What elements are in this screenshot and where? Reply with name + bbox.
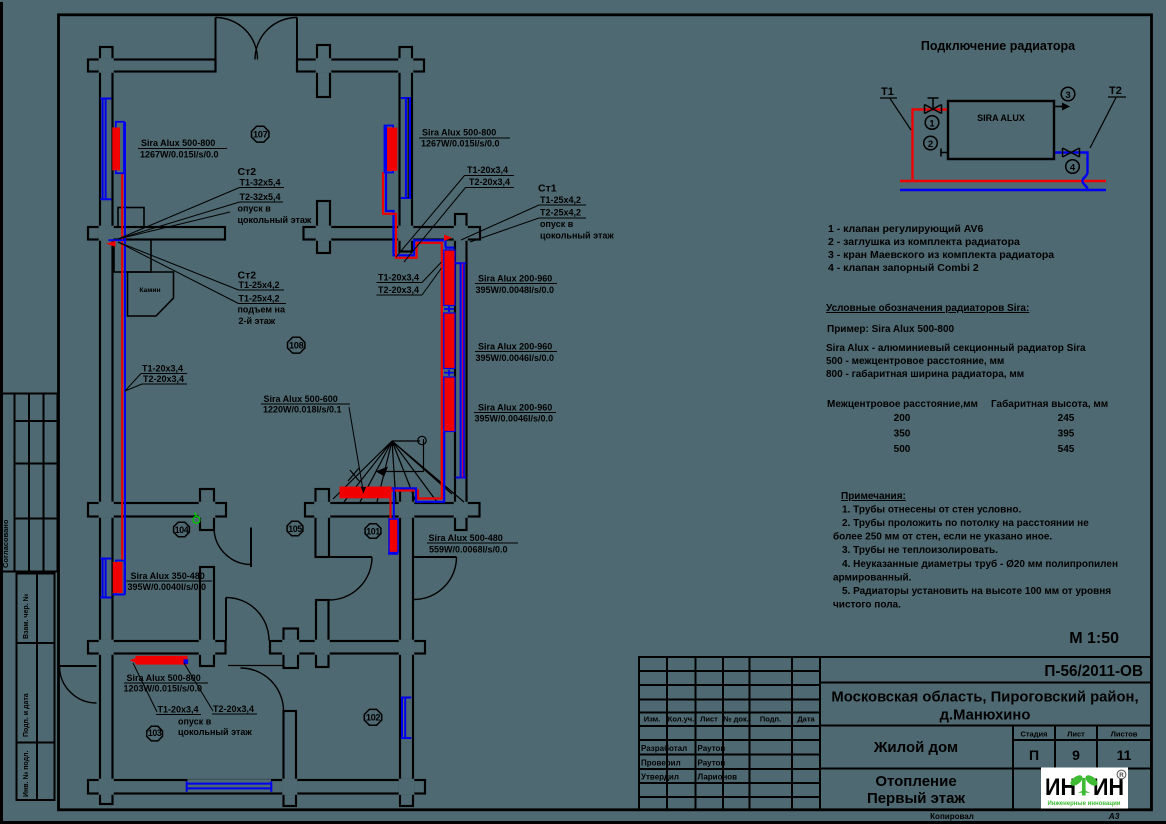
- svg-text:1: 1: [929, 118, 935, 129]
- svg-text:Разработал: Разработал: [641, 744, 687, 753]
- leader arrowhead to stairs radiator: [361, 487, 367, 493]
- fireplace: [114, 208, 174, 317]
- svg-text:1220W/0.018l/s/0.1: 1220W/0.018l/s/0.1: [263, 405, 342, 415]
- svg-text:Раутов: Раутов: [698, 759, 726, 768]
- red arrow at radiator 103 left: [130, 658, 136, 663]
- wall D: [284, 711, 297, 806]
- wall E right interior: [400, 489, 413, 806]
- svg-text:Sira Alux 500-800: Sira Alux 500-800: [422, 128, 496, 138]
- svg-text:107: 107: [253, 130, 268, 140]
- svg-text:Т2-20х3,4: Т2-20х3,4: [378, 285, 419, 295]
- svg-text:Условные обозначения радиаторо: Условные обозначения радиаторов Sira:: [826, 302, 1029, 314]
- svg-text:Стадия: Стадия: [1020, 730, 1047, 739]
- red supply pipe mid: [383, 172, 442, 499]
- return pipe in right wall window: [462, 263, 464, 477]
- svg-text:Т1: Т1: [881, 86, 894, 98]
- svg-text:Sira Alux 350-480: Sira Alux 350-480: [131, 571, 205, 581]
- svg-text:Sira Alux - алюминиевый секци: Sira Alux - алюминиевый секционный радиа…: [826, 343, 1086, 354]
- radiator body SIRA ALUX: [948, 101, 1054, 159]
- wall middle-left: [88, 227, 225, 240]
- radiator 102 Sira Alux 500-480: [389, 519, 398, 553]
- G_ROOMTAGS: [147, 126, 382, 741]
- door D3 leaf: [225, 598, 227, 641]
- entrance door right leaf: [296, 18, 298, 60]
- svg-text:SIRA ALUX: SIRA ALUX: [977, 113, 1025, 123]
- svg-text:Т2-25х4,2: Т2-25х4,2: [540, 208, 581, 218]
- G_PLANLABELS: [124, 128, 615, 738]
- svg-text:559W/0.0068l/s/0.0: 559W/0.0068l/s/0.0: [429, 545, 508, 555]
- entrance door left leaf: [215, 18, 217, 60]
- wall lower-left: [88, 503, 226, 517]
- svg-text:М 1:50: М 1:50: [1069, 630, 1119, 647]
- radiator 107-right Sira Alux 500-800: [385, 126, 394, 173]
- approvals table: [2, 394, 58, 572]
- svg-text:1203W/0.015l/s/0.0: 1203W/0.015l/s/0.0: [124, 684, 203, 694]
- svg-text:Т1-20х3,4: Т1-20х3,4: [467, 165, 508, 175]
- svg-text:245: 245: [1058, 413, 1075, 424]
- svg-text:1. Трубы отнесены от стен усло: 1. Трубы отнесены от стен условно.: [842, 504, 1021, 516]
- logo INZHIN: [1041, 768, 1128, 809]
- svg-text:Т2: Т2: [1109, 85, 1122, 97]
- bottom stub right: [400, 780, 425, 794]
- blue return pipe mid: [386, 126, 454, 256]
- svg-text:Т1-25х4,2: Т1-25х4,2: [540, 195, 581, 205]
- svg-text:Изм.: Изм.: [644, 715, 661, 724]
- window top x405: [401, 98, 411, 198]
- svg-text:4 - клапан запорный Combi 2: 4 - клапан запорный Combi 2: [828, 262, 979, 274]
- svg-text:105: 105: [288, 524, 302, 534]
- window left lower: [100, 559, 111, 598]
- riser drop arrow left (red): [106, 241, 116, 247]
- plug 2: [941, 149, 948, 157]
- stair boundary top: [392, 440, 420, 442]
- svg-text:Раутов: Раутов: [698, 744, 726, 753]
- svg-text:Лист: Лист: [700, 715, 718, 724]
- radiator right-2 Sira Alux 200-960: [444, 313, 455, 369]
- svg-text:Т1-25х4,2: Т1-25х4,2: [239, 280, 280, 290]
- blue cap radiator 102: [388, 553, 398, 555]
- svg-text:2: 2: [928, 139, 933, 150]
- air vent 3: [1054, 106, 1062, 108]
- svg-text:2 - заглушка из комплекта ради: 2 - заглушка из комплекта радиатора: [828, 236, 1020, 248]
- svg-text:Подп. и дата: Подп. и дата: [23, 693, 30, 737]
- svg-text:Sira Alux 500-800: Sira Alux 500-800: [127, 673, 201, 683]
- svg-text:Утвердил: Утвердил: [641, 773, 679, 782]
- G_TITLEBLOCK: [639, 657, 1151, 810]
- svg-text:Т1-32х5,4: Т1-32х5,4: [240, 178, 281, 188]
- svg-text:9: 9: [1072, 747, 1080, 763]
- svg-text:цокольный этаж: цокольный этаж: [540, 231, 614, 241]
- G_UNDERLINES: [124, 138, 586, 715]
- svg-text:Т2-20х3,4: Т2-20х3,4: [143, 374, 184, 384]
- wall top-right segment: [297, 60, 424, 72]
- svg-text:395W/0.0040l/s/0.0: 395W/0.0040l/s/0.0: [128, 582, 207, 592]
- G_LEGEND: [828, 223, 1054, 274]
- G_DOORS: [60, 18, 457, 712]
- sheet left edge: [0, 2, 3, 824]
- door D4 arc: [241, 668, 284, 711]
- svg-text:1267W/0.015l/s/0.0: 1267W/0.015l/s/0.0: [140, 150, 219, 160]
- svg-text:1267W/0.015l/s/0.0: 1267W/0.015l/s/0.0: [421, 139, 500, 149]
- svg-text:108: 108: [289, 341, 304, 351]
- svg-text:Кол.уч.: Кол.уч.: [668, 715, 694, 724]
- door D5 leaf: [414, 556, 457, 558]
- detail red main: [900, 180, 1106, 182]
- wall B x207: [200, 567, 214, 666]
- svg-text:Проверил: Проверил: [641, 759, 681, 768]
- svg-text:опуск в: опуск в: [238, 204, 272, 214]
- detail blue main: [900, 189, 1106, 191]
- green symbol: [193, 513, 200, 524]
- G_WALLS: [88, 45, 480, 806]
- svg-text:500: 500: [894, 444, 911, 455]
- tag 1: [925, 116, 939, 130]
- svg-text:д.Манюхино: д.Манюхино: [940, 708, 1031, 724]
- wall vertical x400 top: [400, 47, 413, 252]
- svg-text:800 - габаритная ширина радиат: 800 - габаритная ширина радиатора, мм: [826, 368, 1024, 380]
- stair arrowhead: [377, 468, 387, 476]
- svg-text:104: 104: [175, 525, 189, 535]
- threshold line room 102: [228, 665, 284, 667]
- svg-text:11: 11: [1117, 747, 1132, 763]
- svg-text:Габаритная высота, мм: Габаритная высота, мм: [991, 398, 1108, 410]
- svg-text:350: 350: [894, 429, 911, 440]
- svg-text:подъем на: подъем на: [238, 305, 286, 315]
- radiator 103 horizontal Sira Alux 500-800: [136, 656, 188, 665]
- stair treads fan: [333, 441, 464, 502]
- sheet bottom edge: [0, 821, 1166, 824]
- stair arrow tail cross: [348, 468, 360, 482]
- blue mark at radiator 103 right: [184, 659, 189, 664]
- svg-text:Sira Alux 500-600: Sira Alux 500-600: [264, 394, 338, 404]
- valve 4 on return: [1063, 148, 1080, 157]
- door 103 exterior arc: [60, 666, 97, 703]
- radiator 104 Sira Alux 350-480: [116, 561, 125, 595]
- svg-text:Межцентровое расстояние,мм: Межцентровое расстояние,мм: [827, 399, 978, 410]
- svg-text:Лист: Лист: [1067, 730, 1085, 739]
- svg-text:Sira Alux 500-480: Sira Alux 500-480: [429, 533, 503, 543]
- svg-text:3. Трубы не теплоизолировать.: 3. Трубы не теплоизолировать.: [842, 544, 998, 556]
- svg-text:Sira Alux 200-960: Sira Alux 200-960: [478, 274, 552, 284]
- tag 2: [924, 136, 938, 150]
- lower stamp boxes: [17, 574, 55, 801]
- svg-text:395W/0.0048l/s/0.0: 395W/0.0048l/s/0.0: [476, 285, 555, 295]
- door 103 exterior leaf: [60, 665, 97, 667]
- svg-text:3: 3: [1065, 90, 1070, 101]
- svg-text:Т1-20х3,4: Т1-20х3,4: [142, 364, 183, 374]
- door D5 arc: [414, 557, 457, 600]
- blue return pipe left riser: [124, 122, 126, 594]
- wall bottom: [88, 780, 413, 794]
- svg-text:545: 545: [1058, 444, 1075, 455]
- wall A interior horizontal left: [88, 641, 226, 654]
- door D2 arc: [329, 557, 372, 600]
- svg-text:Ст1: Ст1: [538, 183, 557, 195]
- detail red riser: [913, 110, 949, 182]
- wall C lower: [316, 600, 329, 667]
- window bottom wall: [187, 781, 272, 792]
- cross mid: [317, 201, 330, 253]
- svg-text:Листов: Листов: [1111, 730, 1138, 739]
- window left upper: [100, 99, 111, 200]
- svg-text:R: R: [1119, 772, 1124, 779]
- svg-text:4: 4: [1070, 162, 1076, 173]
- stub bar at door 102: [284, 629, 299, 669]
- window right long: [456, 263, 467, 477]
- svg-text:Подключение радиатора: Подключение радиатора: [921, 39, 1076, 53]
- radiator right-3 Sira Alux 200-960: [444, 377, 455, 432]
- svg-text:Дата: Дата: [797, 715, 815, 724]
- svg-text:Sira Alux 200-960: Sira Alux 200-960: [478, 403, 552, 413]
- svg-text:Согласовано: Согласовано: [1, 519, 10, 568]
- svg-text:А3: А3: [1108, 811, 1120, 821]
- svg-text:Первый этаж: Первый этаж: [867, 790, 965, 807]
- svg-text:Подп.: Подп.: [760, 715, 781, 724]
- blue return pipe right lower: [392, 432, 445, 502]
- inter-radiator connectors (blue): [444, 306, 454, 376]
- svg-text:2-й этаж: 2-й этаж: [239, 316, 276, 326]
- svg-text:Ст2: Ст2: [238, 166, 257, 178]
- svg-text:Копировал: Копировал: [930, 812, 974, 821]
- G_LEFTSTAMP: [2, 394, 58, 801]
- svg-text:опуск в: опуск в: [178, 717, 212, 727]
- pipes drop to radiator 102: [390, 491, 392, 520]
- junction erasers: [99, 58, 468, 795]
- svg-text:Жилой дом: Жилой дом: [873, 739, 958, 756]
- cross top-mid: [317, 45, 330, 97]
- wall stair-left upper: [316, 489, 330, 557]
- svg-text:4. Неуказанные диаметры труб -: 4. Неуказанные диаметры труб - Ø20 мм по…: [842, 558, 1118, 570]
- svg-text:П: П: [1029, 747, 1039, 763]
- svg-text:опуск в: опуск в: [540, 219, 574, 229]
- svg-text:103: 103: [148, 728, 162, 738]
- svg-text:2. Трубы проложить по потолку: 2. Трубы проложить по потолку на расстоя…: [842, 517, 1089, 529]
- door D2 leaf: [329, 556, 372, 558]
- svg-text:Пример: Sira Alux 500-800: Пример: Sira Alux 500-800: [827, 324, 955, 335]
- tag 3: [1061, 87, 1075, 101]
- window bottom-right wall: [401, 698, 412, 739]
- riser hook left (blue): [109, 239, 126, 241]
- door D3 arc: [226, 598, 269, 641]
- svg-text:Т1-25х4,2: Т1-25х4,2: [239, 294, 280, 304]
- door D1 leaf: [250, 528, 252, 568]
- newel circle: [418, 436, 426, 444]
- svg-text:395W/0.0046l/s/0.0: 395W/0.0046l/s/0.0: [476, 353, 555, 363]
- riser arrow mid (red): [444, 235, 452, 242]
- svg-text:Ларионов: Ларионов: [698, 773, 738, 782]
- svg-text:1 - клапан регулирующий AV6: 1 - клапан регулирующий AV6: [828, 223, 984, 235]
- svg-text:Sira Alux 200-960: Sira Alux 200-960: [478, 342, 552, 352]
- svg-text:Отопление: Отопление: [875, 773, 956, 790]
- stair direction arrow shaft: [378, 471, 424, 473]
- svg-text:Московская область, Пироговски: Московская область, Пироговский район,: [831, 690, 1138, 706]
- svg-text:Взам. чер. №: Взам. чер. №: [22, 593, 30, 639]
- radiator 107-left Sira Alux 500-800: [116, 122, 124, 173]
- wall right exterior: [455, 214, 467, 530]
- svg-text:№ док.: № док.: [723, 715, 749, 724]
- svg-text:101: 101: [366, 527, 380, 537]
- window mullion line top-middle: [407, 98, 409, 198]
- stair newel post line: [423, 439, 425, 472]
- svg-text:Т2-32х5,4: Т2-32х5,4: [240, 192, 281, 202]
- svg-text:5. Радиаторы установить на выс: 5. Радиаторы установить на высоте 100 мм…: [842, 586, 1111, 597]
- svg-text:более 250 мм от стен, если не: более 250 мм от стен, если не указано ин…: [833, 531, 1052, 543]
- svg-text:армированный.: армированный.: [833, 573, 912, 584]
- svg-text:Т2-20х3,4: Т2-20х3,4: [213, 704, 254, 714]
- wall lower-right: [305, 503, 480, 517]
- svg-text:Т1-20х3,4: Т1-20х3,4: [158, 705, 199, 715]
- svg-text:102: 102: [366, 713, 381, 723]
- svg-text:200: 200: [894, 413, 911, 424]
- red supply pipe left riser: [121, 173, 123, 562]
- wall middle-right: [304, 227, 481, 240]
- wall left exterior: [100, 47, 113, 804]
- svg-text:цокольный этаж: цокольный этаж: [178, 727, 252, 737]
- svg-text:Камин: Камин: [139, 287, 160, 294]
- svg-text:ИН: ИН: [1045, 774, 1076, 801]
- svg-text:500 - межцентровое расстояние,: 500 - межцентровое расстояние, мм: [826, 356, 1004, 367]
- blue cap under radiator left lower: [113, 594, 126, 596]
- svg-text:Инженерные инновации: Инженерные инновации: [1048, 800, 1121, 807]
- valve 1 on supply: [925, 105, 942, 114]
- svg-text:Примечания:: Примечания:: [841, 491, 906, 502]
- svg-text:3 - кран Маевского из комплект: 3 - кран Маевского из комплекта радиатор…: [828, 249, 1054, 261]
- radiator right-1 Sira Alux 200-960: [444, 250, 455, 306]
- cross lower x207: [200, 489, 214, 530]
- svg-text:Sira Alux 500-800: Sira Alux 500-800: [141, 138, 215, 148]
- wall A interior horizontal right: [270, 641, 425, 654]
- svg-text:Инв. № подл.: Инв. № подл.: [22, 750, 30, 797]
- svg-text:цокольный этаж: цокольный этаж: [238, 215, 312, 225]
- G_WINDOWS: [100, 98, 466, 792]
- svg-text:чистого пола.: чистого пола.: [833, 600, 901, 611]
- radiator stairs horizontal Sira Alux 500-600: [340, 487, 392, 499]
- G_LEADERS: [118, 176, 539, 713]
- tag 4: [1066, 160, 1080, 174]
- svg-text:П-56/2011-ОВ: П-56/2011-ОВ: [1044, 663, 1143, 680]
- svg-text:395W/0.0046l/s/0.0: 395W/0.0046l/s/0.0: [475, 414, 554, 424]
- svg-text:395: 395: [1058, 429, 1075, 440]
- door D1 arc: [214, 528, 251, 565]
- svg-text:Т1-20х3,4: Т1-20х3,4: [378, 273, 419, 283]
- G_STAIRS: [333, 436, 464, 502]
- svg-text:Т2-20х3,4: Т2-20х3,4: [469, 177, 510, 187]
- detail blue return with jog: [1054, 153, 1088, 191]
- wall top-left segment: [88, 60, 216, 72]
